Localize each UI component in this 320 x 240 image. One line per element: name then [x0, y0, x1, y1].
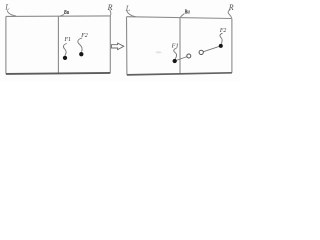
svg-text:F2: F2: [80, 33, 88, 39]
svg-text:F1: F1: [171, 42, 179, 49]
svg-text:Bu: Bu: [184, 9, 190, 15]
svg-text:Bu: Bu: [63, 10, 69, 16]
svg-text:F1: F1: [64, 37, 72, 43]
svg-text:L: L: [125, 4, 131, 13]
svg-text:R: R: [228, 3, 234, 12]
svg-text:L: L: [4, 2, 10, 11]
svg-text:R: R: [107, 3, 113, 12]
svg-text:F2: F2: [219, 28, 227, 34]
